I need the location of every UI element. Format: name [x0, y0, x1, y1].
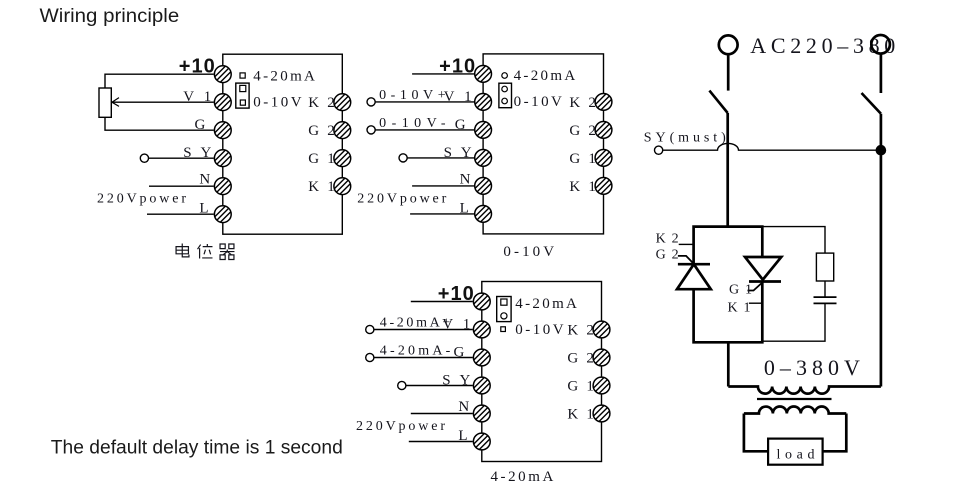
SY input terminal circle	[398, 381, 406, 389]
terminal V1	[473, 321, 490, 338]
terminal K1	[595, 178, 612, 195]
svg-text:N: N	[458, 399, 469, 415]
jumper pin square upper	[501, 299, 507, 305]
terminal V1	[214, 94, 231, 111]
terminal N	[473, 405, 490, 422]
terminal K1	[593, 405, 610, 422]
terminal L	[473, 433, 490, 450]
K1 stub wire	[749, 302, 762, 304]
junction dot on right main	[876, 145, 887, 156]
jumper pin square lower	[240, 100, 245, 105]
G1 gate wire	[748, 283, 763, 291]
wire L	[147, 213, 214, 215]
svg-text:N: N	[460, 171, 471, 187]
wire resistor to capacitor	[824, 281, 826, 297]
jumper pin square below	[501, 327, 506, 332]
jumper pin square upper	[240, 85, 246, 91]
transformer primary winding	[728, 387, 881, 394]
wire N	[412, 185, 474, 187]
transformer secondary winding	[744, 407, 846, 414]
terminal L	[475, 206, 492, 223]
terminal G1	[593, 377, 610, 394]
svg-text:4-20mA: 4-20mA	[515, 296, 577, 312]
wire L	[410, 213, 474, 215]
terminal K2	[595, 94, 612, 111]
secondary left wire	[744, 414, 768, 452]
svg-text:4-20mA: 4-20mA	[253, 69, 315, 85]
terminal G1	[334, 150, 351, 167]
jumper pin circle lower	[501, 313, 507, 319]
jumper pin circle upper	[502, 86, 508, 92]
terminal K2	[334, 94, 351, 111]
svg-text:0-10V: 0-10V	[253, 95, 301, 111]
terminal +10	[475, 66, 492, 83]
terminal SY	[475, 150, 492, 167]
svg-text:0-10V: 0-10V	[515, 322, 563, 338]
module 1 outline box	[223, 54, 342, 234]
potentiometer wiper arrow	[112, 98, 119, 107]
terminal G	[214, 122, 231, 139]
wire SY	[148, 157, 213, 159]
thyristor SCR1 triangle	[745, 257, 781, 280]
wire 0-10V- to G	[375, 129, 474, 131]
caption 电位器 (module 1, potentiometer)	[176, 244, 189, 257]
snubber top wire	[762, 227, 825, 254]
thyristor SCR2 triangle	[677, 264, 711, 289]
svg-text:L: L	[458, 428, 467, 444]
thyristor SCR2 cathode bar	[678, 263, 710, 266]
snubber bottom wire	[762, 303, 825, 341]
svg-text:4-20mA: 4-20mA	[514, 68, 576, 84]
svg-text:The default delay time is 1 se: The default delay time is 1 second	[51, 438, 343, 459]
wire right main drop	[880, 114, 883, 387]
svg-text:+10: +10	[179, 56, 215, 78]
jumper shunt rectangle	[236, 83, 249, 108]
wire SY	[407, 157, 474, 159]
wire 0-10V+ to V1	[375, 101, 474, 103]
secondary right wire	[823, 414, 847, 452]
terminal G	[475, 121, 492, 138]
wire +10 stub	[411, 301, 473, 303]
svg-text:L: L	[199, 201, 208, 217]
K2 stub wire	[679, 243, 694, 245]
wire from left AC terminal	[727, 54, 730, 90]
wire 4-20mA- to G	[374, 357, 473, 359]
terminal N	[214, 178, 231, 195]
terminal K1	[334, 178, 351, 195]
terminal N	[475, 178, 492, 195]
svg-text:G: G	[455, 117, 466, 133]
svg-text:+10: +10	[438, 283, 474, 305]
svg-text:+10: +10	[439, 55, 475, 77]
terminal V1	[475, 94, 492, 111]
terminal L	[214, 206, 231, 223]
AC terminal left	[719, 35, 738, 54]
wire 4-20mA+ to V1	[374, 329, 473, 331]
terminal G	[473, 349, 490, 366]
wire +10 stub	[412, 73, 474, 75]
wire N	[411, 413, 473, 415]
terminal SY	[214, 150, 231, 167]
SCR module box	[694, 227, 763, 343]
terminal K2	[593, 321, 610, 338]
jumper shunt rectangle	[497, 297, 511, 322]
svg-text:220Vpower: 220Vpower	[97, 192, 186, 207]
switch S1 blade	[709, 91, 727, 113]
transformer core	[757, 398, 832, 400]
SY input terminal circle	[399, 154, 407, 162]
svg-text:220Vpower: 220Vpower	[357, 191, 446, 206]
snubber resistor	[816, 253, 833, 281]
terminal SY	[473, 377, 490, 394]
wire +10 to potentiometer top	[105, 74, 214, 88]
svg-text:L: L	[460, 200, 469, 216]
input terminal 4-20mA-	[366, 353, 374, 361]
AC terminal right	[871, 35, 890, 54]
svg-text:Wiring principle: Wiring principle	[40, 6, 180, 27]
load box	[768, 439, 823, 465]
terminal G1	[595, 150, 612, 167]
terminal G2	[595, 121, 612, 138]
input terminal 4-20mA+	[366, 325, 374, 333]
SY input terminal circle	[655, 146, 663, 154]
module 3 outline box	[482, 282, 602, 462]
svg-text:G: G	[194, 117, 205, 133]
snubber capacitor plates	[814, 297, 837, 303]
wire from right AC terminal	[880, 54, 883, 93]
wire V1 to potentiometer wiper	[112, 101, 214, 103]
SY wire with hop over left main	[663, 143, 881, 150]
wire switch to SCR box	[726, 113, 729, 227]
wire N	[149, 185, 214, 187]
input terminal 0-10V-	[367, 126, 375, 134]
jumper shunt rectangle	[499, 83, 512, 108]
svg-text:SY(must): SY(must)	[644, 131, 726, 146]
jumper pin circle (4-20mA)	[502, 73, 508, 79]
terminal +10	[473, 293, 490, 310]
svg-text:N: N	[199, 172, 210, 188]
terminal +10	[214, 66, 231, 83]
jumper pin square (4-20mA)	[240, 73, 245, 78]
svg-text:4-20mA: 4-20mA	[491, 469, 554, 485]
svg-text:220Vpower: 220Vpower	[356, 419, 445, 434]
svg-text:G: G	[453, 345, 464, 361]
wire SY	[406, 385, 473, 387]
terminal G2	[593, 349, 610, 366]
module 2 outline box	[483, 54, 603, 234]
svg-text:0-10V: 0-10V	[514, 94, 562, 110]
jumper pin circle lower	[502, 98, 508, 104]
wire feed into box top	[727, 342, 730, 386]
wire G to potentiometer bottom	[105, 117, 214, 130]
input terminal 0-10V+	[367, 98, 375, 106]
G2 gate wire	[678, 256, 696, 266]
terminal G2	[334, 122, 351, 139]
thyristor SCR1 cathode bar	[749, 280, 781, 283]
switch S2 blade	[862, 93, 881, 114]
SY input terminal circle	[140, 154, 148, 162]
wire L	[409, 441, 473, 443]
potentiometer body	[99, 88, 111, 117]
